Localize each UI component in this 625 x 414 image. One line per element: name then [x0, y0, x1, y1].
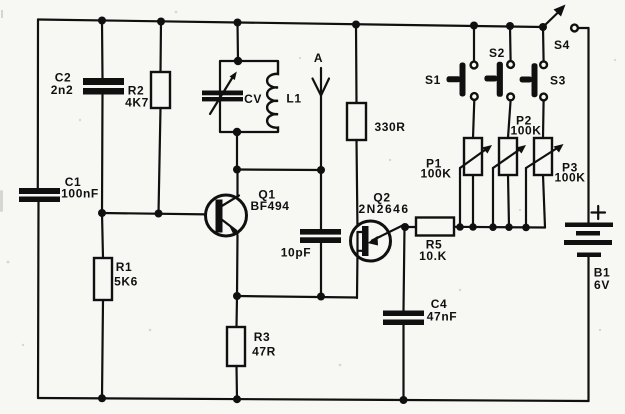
svg-text:S1: S1: [425, 73, 441, 87]
transistor Q2 (UJT): [351, 191, 410, 299]
potentiometer P1: [420, 138, 492, 227]
svg-text:47nF: 47nF: [427, 310, 457, 324]
inductor L1: [267, 61, 301, 132]
svg-text:A: A: [314, 51, 323, 65]
node: base junction: [98, 209, 106, 217]
node: tank top: [234, 57, 242, 65]
svg-text:CV: CV: [244, 92, 262, 106]
node: top rail junction at 330R: [352, 21, 360, 29]
wire: R2 branch from top rail: [159, 22, 162, 73]
wire: Q1 collector: [236, 170, 238, 196]
resistor 330R: [347, 25, 406, 233]
svg-text:S4: S4: [554, 38, 570, 52]
wire: collector node to antenna: [237, 168, 321, 171]
svg-text:S2: S2: [489, 46, 505, 60]
node: R3 bottom on ground rail: [233, 395, 241, 403]
svg-text:10.K: 10.K: [419, 249, 447, 263]
wire: base wire to Q1: [102, 213, 216, 215]
node: C4 bottom on ground rail: [400, 396, 408, 404]
wire: top rail to tank: [236, 23, 239, 62]
wire: tank bottom to collector node: [236, 132, 238, 170]
node: P3 wiper on bus: [522, 224, 530, 232]
capacitor CV (variable): [202, 72, 262, 115]
resistor R3: [227, 296, 276, 399]
capacitor C1: [19, 175, 99, 202]
svg-text:4K7: 4K7: [125, 96, 149, 110]
wire: R2 to base wire: [159, 108, 161, 214]
node: P2 wiper on bus: [489, 223, 497, 231]
resistor R1: [94, 213, 138, 398]
battery B1: [564, 28, 613, 401]
node: top rail junction at S1: [470, 22, 478, 30]
capacitor C2: [51, 71, 124, 98]
svg-text:5K6: 5K6: [114, 275, 138, 289]
wire: emitter row: [237, 296, 357, 298]
svg-text:100nF: 100nF: [61, 187, 99, 201]
node: tank bottom: [233, 128, 241, 136]
switch S1: [425, 26, 478, 139]
node: R1 bottom on ground rail: [98, 394, 106, 402]
node: top rail junction at S2: [506, 22, 514, 30]
wire: C2 to base node: [101, 95, 104, 214]
svg-text:100K: 100K: [554, 171, 585, 185]
node: Q2 emitter node: [401, 223, 409, 231]
node: top rail junction at R2: [157, 18, 165, 26]
node: collector junction: [233, 166, 241, 174]
capacitor 10pF: [281, 170, 341, 297]
svg-text:BF494: BF494: [250, 199, 289, 213]
node: P1 body on bus: [469, 223, 477, 231]
node: R2/base junction: [155, 210, 163, 218]
switch S4: [539, 5, 589, 53]
svg-text:2N2646: 2N2646: [358, 202, 409, 216]
wire: bottom ground rail: [38, 398, 589, 401]
switch S2: [484, 26, 514, 138]
transistor Q1: [206, 188, 290, 237]
node: 10pF bottom junction: [317, 293, 325, 301]
node: P2 body on bus: [505, 223, 513, 231]
wire: top supply rail: [38, 20, 543, 28]
node: P1 wiper on bus: [456, 223, 464, 231]
svg-text:S3: S3: [550, 74, 566, 88]
potentiometer P3: [526, 138, 586, 228]
antenna A: [313, 51, 330, 170]
svg-text:2n2: 2n2: [51, 83, 73, 97]
svg-text:L1: L1: [286, 92, 301, 106]
svg-text:100K: 100K: [510, 124, 541, 138]
wire: left rail upper segment: [37, 20, 39, 189]
svg-text:47R: 47R: [252, 345, 276, 359]
resistor R5: [405, 218, 454, 264]
capacitor C4: [383, 227, 457, 400]
node: emitter row left: [233, 292, 241, 300]
node: antenna junction: [317, 166, 325, 174]
wire: Q1 emitter down: [236, 235, 239, 296]
svg-text:6V: 6V: [594, 278, 610, 292]
resistor R2: [125, 72, 170, 110]
svg-text:330R: 330R: [374, 120, 405, 134]
wire: pot bottom bus: [454, 226, 545, 229]
wire: tank loop: [220, 61, 278, 132]
svg-text:R3: R3: [254, 330, 271, 344]
node: top rail junction at C2: [98, 17, 106, 25]
svg-text:10pF: 10pF: [281, 246, 311, 260]
svg-text:R1: R1: [116, 260, 133, 274]
node: top rail junction at tank: [234, 19, 242, 27]
wire: left rail lower segment: [37, 202, 40, 399]
wire: C2 branch from top rail: [101, 21, 104, 79]
switch S3: [520, 27, 566, 138]
potentiometer P2: [493, 114, 542, 228]
svg-text:100K: 100K: [420, 167, 451, 181]
